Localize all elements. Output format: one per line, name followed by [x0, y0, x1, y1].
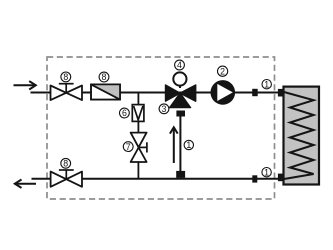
svg-text:2: 2 [220, 66, 225, 76]
balancing valve 7 [131, 133, 147, 162]
svg-text:4: 4 [177, 60, 182, 70]
union connector below mixing valve [176, 111, 185, 117]
union connector 1 (bottom return pipe) [252, 175, 257, 182]
heat exchanger [284, 87, 320, 185]
union connector 1 (top supply pipe) [252, 89, 258, 96]
svg-text:3: 3 [162, 104, 167, 114]
label 7 [123, 142, 133, 152]
svg-text:1: 1 [264, 167, 269, 177]
label 1 (bottom) [262, 167, 271, 177]
svg-text:7: 7 [126, 142, 131, 152]
flow direction arrow (bypass leg) [170, 127, 178, 163]
wire: mixing valve to return pipe leg [179, 113, 181, 176]
label 6 [120, 108, 130, 118]
3-way mixing valve 3 [166, 85, 196, 108]
wire: bottom return pipe [32, 178, 279, 180]
label 1 (top) [262, 79, 271, 89]
svg-text:8: 8 [63, 72, 68, 82]
label 3 [159, 104, 169, 114]
heat exchanger outlet connector (bottom) [278, 174, 284, 182]
label 8 (bottom shut-off valve) [61, 158, 71, 168]
shut-off valve 8 (bottom return) [51, 170, 82, 187]
strainer / filter 8 [91, 84, 120, 99]
outlet flow arrow (bottom left) [15, 180, 36, 188]
label 8 (filter) [99, 72, 109, 82]
wire: top supply pipe [31, 92, 279, 94]
heat exchanger inlet connector (top) [278, 89, 284, 97]
label 1 (bypass leg) [184, 140, 193, 150]
wire: bypass branch (check valve / balancing valve leg) [137, 93, 139, 179]
actuator 4 (on mixing valve) [173, 72, 186, 88]
svg-text:6: 6 [122, 108, 127, 118]
dashed system boundary [47, 57, 275, 199]
label 4 [175, 60, 185, 70]
shut-off valve 8 (top supply) [51, 84, 83, 100]
svg-text:8: 8 [102, 72, 107, 82]
inlet flow arrow (top left) [14, 81, 36, 89]
label 2 [218, 66, 228, 76]
check valve 6 [132, 105, 144, 122]
pump 2 [211, 80, 236, 105]
svg-text:1: 1 [186, 140, 191, 150]
svg-text:1: 1 [264, 79, 269, 89]
svg-text:8: 8 [63, 159, 68, 169]
union connector at return pipe junction [176, 171, 185, 178]
label 8 (top shut-off valve) [61, 72, 71, 82]
